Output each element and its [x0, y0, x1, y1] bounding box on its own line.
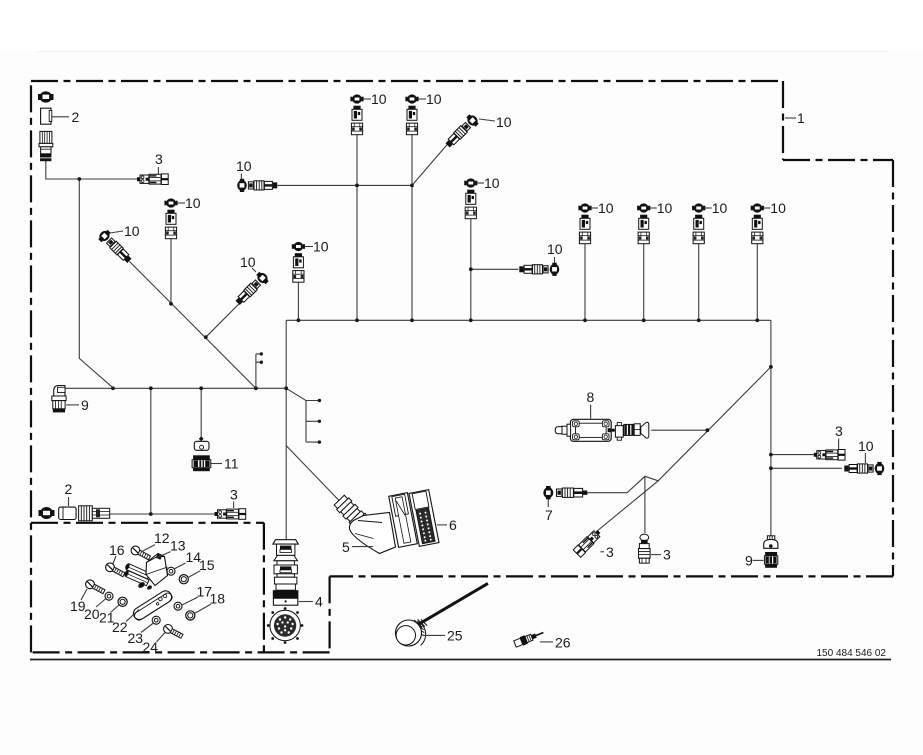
- connector 5 angled boot: [332, 494, 395, 554]
- right side wires to 3 and 10: [771, 454, 814, 456]
- connector 10 stack F3: [692, 203, 705, 243]
- svg-text:10: 10: [236, 158, 252, 174]
- svg-text:6: 6: [449, 517, 457, 533]
- vertical wire to 2-3 line: [150, 388, 152, 514]
- svg-text:10: 10: [484, 175, 500, 191]
- leader lines 12-24: [81, 545, 211, 642]
- svg-text:24: 24: [143, 639, 159, 655]
- svg-text:150 484 546 02: 150 484 546 02: [816, 648, 886, 659]
- connector 3 right: [814, 450, 845, 461]
- connector 10 stack H: [164, 198, 177, 238]
- connector 10 chain C diagonal: [443, 112, 481, 150]
- svg-text:18: 18: [210, 591, 226, 607]
- horizontal wire y=185.4: [278, 184, 413, 186]
- svg-text:3: 3: [155, 151, 163, 167]
- small branch with two dots: [256, 354, 260, 388]
- nut 15: [179, 575, 188, 584]
- wire to chain G: [471, 268, 519, 270]
- washer 20: [105, 592, 113, 600]
- inner dash-dot box (items 12-24): [31, 523, 264, 653]
- svg-text:2: 2: [65, 481, 73, 497]
- svg-text:5: 5: [342, 539, 350, 555]
- sensor 25 with cable: [396, 583, 488, 646]
- svg-text:9: 9: [745, 553, 753, 569]
- chain J wire: [206, 296, 248, 338]
- svg-text:9: 9: [81, 397, 89, 413]
- connector 4 round face: [267, 607, 304, 644]
- bottom page rule: [30, 659, 891, 661]
- svg-text:10: 10: [598, 200, 614, 216]
- connector 10 chain J diagonal: [233, 270, 271, 308]
- main left diagonal: [130, 262, 256, 389]
- sensor 11: [192, 436, 211, 471]
- washer 14: [167, 567, 175, 575]
- connector 10 chain D horizontal: [237, 179, 277, 192]
- connector 4 stack: [273, 540, 299, 606]
- connector 3 diagonal (left of fork): [573, 528, 603, 558]
- connector 10 stack F2: [637, 203, 650, 243]
- connector 7: [543, 486, 587, 499]
- sensor 13 body: [122, 554, 168, 591]
- svg-text:10: 10: [313, 239, 329, 255]
- harness top edge: [286, 319, 771, 321]
- diagonal to item 5: [286, 446, 340, 502]
- connector 6: [389, 490, 439, 548]
- connector 10 stack B: [405, 94, 418, 134]
- svg-text:20: 20: [84, 606, 100, 622]
- main dash-dot border: [31, 81, 893, 652]
- limit switch 8: [555, 419, 649, 441]
- svg-text:10: 10: [496, 114, 512, 130]
- wire down-left long: [79, 179, 113, 388]
- connector 10 chain I diagonal: [96, 228, 134, 266]
- washer 23: [152, 616, 160, 624]
- connector 9 left elbow: [52, 386, 66, 413]
- svg-text:12: 12: [154, 530, 170, 546]
- svg-text:10: 10: [185, 195, 201, 211]
- item 8 wire: [651, 429, 707, 431]
- svg-text:10: 10: [770, 200, 786, 216]
- connector 10 stack E: [464, 178, 477, 218]
- vertical wire to item 11: [200, 388, 202, 438]
- sensor 26: [513, 628, 545, 648]
- three-dot branch: [286, 388, 318, 442]
- svg-text:25: 25: [447, 628, 463, 644]
- connector 10 stack F1: [578, 203, 591, 243]
- harness left edge down to item 4: [285, 320, 287, 539]
- screw 19: [86, 580, 105, 594]
- svg-text:10: 10: [371, 91, 387, 107]
- 2-3 bottom horizontal wire: [110, 513, 215, 515]
- nut 21: [118, 597, 127, 606]
- svg-text:10: 10: [240, 254, 256, 270]
- harness right edge: [770, 320, 772, 536]
- svg-text:8: 8: [587, 389, 595, 405]
- connector 10 chain right: [844, 462, 884, 475]
- svg-text:16: 16: [109, 542, 125, 558]
- screw 16: [106, 563, 125, 577]
- connector 2 top-left: [38, 91, 54, 161]
- connector 3 bottom-left: [215, 509, 246, 520]
- svg-text:10: 10: [657, 200, 673, 216]
- connector 9 right: [764, 536, 778, 568]
- wire from item2 down to item3 line: [46, 161, 138, 180]
- connector 3 top-left: [137, 174, 168, 185]
- svg-text:10: 10: [124, 223, 140, 239]
- connector 10 stack at x298: [292, 242, 305, 282]
- big right diagonal with fork: [597, 367, 771, 532]
- svg-text:22: 22: [112, 619, 128, 635]
- screw 24: [164, 625, 183, 639]
- svg-text:26: 26: [555, 635, 571, 651]
- svg-text:7: 7: [545, 507, 553, 523]
- svg-text:10: 10: [712, 200, 728, 216]
- item 7 wire and fork: [587, 476, 658, 533]
- connector 10 stack F4: [751, 203, 764, 243]
- horizontal wire y=388.3: [65, 387, 286, 389]
- washer 17: [174, 602, 182, 610]
- stack wires: [356, 135, 358, 320]
- connector 2 bottom assembly: [39, 506, 110, 521]
- top page rule: [37, 51, 887, 53]
- svg-text:3: 3: [230, 487, 238, 503]
- diagonal to chain C: [412, 142, 450, 186]
- svg-text:10: 10: [547, 241, 563, 257]
- svg-text:3: 3: [835, 423, 843, 439]
- svg-text:11: 11: [224, 456, 239, 472]
- connector 10 stack A: [350, 94, 363, 134]
- svg-text:13: 13: [170, 538, 186, 554]
- svg-text:10: 10: [858, 438, 874, 454]
- connector 10 chain G horizontal: [519, 263, 559, 276]
- stack H wire: [170, 239, 172, 304]
- svg-text:3: 3: [663, 547, 671, 563]
- connector 3 vertical (center of fork): [639, 534, 651, 563]
- svg-text:23: 23: [128, 630, 144, 646]
- svg-text:15: 15: [199, 557, 215, 573]
- nut 18: [186, 611, 195, 620]
- svg-text:2: 2: [72, 109, 80, 125]
- svg-text:3: 3: [606, 544, 614, 560]
- svg-text:4: 4: [315, 594, 323, 610]
- bracket 22: [131, 589, 174, 622]
- screw 12: [131, 546, 150, 560]
- svg-text:10: 10: [426, 91, 442, 107]
- svg-text:1: 1: [797, 110, 805, 126]
- label 1: [785, 117, 796, 119]
